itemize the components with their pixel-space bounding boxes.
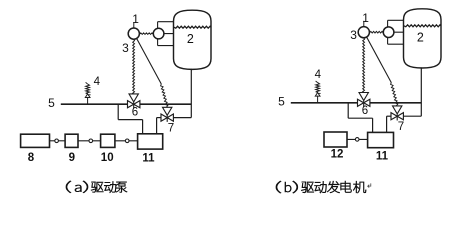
branch pipe from line 5 to unit 11 — [347, 103, 349, 118]
valve 7 actuator — [396, 116, 398, 120]
unit box 10 — [101, 134, 115, 147]
valve 7 actuator — [166, 118, 168, 122]
svg-text:6: 6 — [362, 105, 368, 117]
stub above circle 1 — [133, 22, 135, 28]
svg-text:8: 8 — [28, 152, 35, 164]
svg-text:1: 1 — [362, 11, 369, 25]
tank vessel 2 — [404, 9, 442, 68]
svg-text:1: 1 — [132, 12, 139, 26]
coupling 10-11 — [125, 139, 129, 143]
pipe from valve 6 to tank outlet riser — [140, 103, 191, 105]
svg-text:4: 4 — [94, 76, 101, 88]
valve 6 body — [128, 101, 134, 108]
unit box 12 — [324, 132, 347, 147]
pipe line 5 — [291, 102, 358, 104]
circle instrument 1 — [358, 27, 369, 38]
capillary between circle 1 and circle 2 — [368, 31, 385, 33]
sensing line circle 1 to valve 7 — [137, 39, 162, 84]
unit box 8 — [21, 134, 50, 147]
valve 7 body — [391, 113, 397, 120]
svg-text:11: 11 — [376, 151, 389, 163]
pipe valve 7 left drop to unit 11 — [387, 115, 391, 117]
unit box 9 — [65, 134, 78, 147]
relief device 4 — [87, 98, 89, 105]
sensing line circle 1 to valve 7 — [367, 37, 392, 82]
circle instrument 1 — [128, 28, 139, 39]
svg-text:5: 5 — [48, 96, 55, 110]
caption (b) drive generator — [276, 181, 281, 193]
svg-text:3: 3 — [122, 41, 129, 55]
tank outlet riser — [190, 69, 192, 118]
relief device 4 — [317, 96, 319, 103]
pipe riser to valve 7 right — [173, 117, 191, 119]
shaft 8-9 — [50, 140, 66, 142]
svg-text:2: 2 — [187, 32, 194, 46]
tank liquid level (wavy) — [404, 25, 441, 27]
tank outlet riser — [420, 67, 422, 116]
coupling 9-10 — [89, 139, 93, 143]
pipe from valve 6 to tank outlet riser — [370, 102, 421, 104]
heater loop pipes to tank — [157, 22, 159, 46]
caption (a) drive pump — [66, 181, 71, 193]
svg-text:2: 2 — [417, 31, 424, 45]
svg-text:6: 6 — [132, 106, 138, 118]
return mark after caption b — [368, 183, 371, 187]
coupling 12-11 — [355, 138, 359, 142]
diagram (a) drive pump — [21, 10, 211, 164]
svg-text:11: 11 — [142, 152, 155, 164]
shaft 9-10 — [78, 140, 101, 142]
diagram (b) drive generator — [278, 9, 441, 163]
tank vessel 2 — [174, 10, 212, 69]
valve 6 actuator — [363, 103, 365, 107]
valve 7 body — [161, 114, 167, 121]
svg-text:7: 7 — [398, 121, 404, 133]
heater loop pipes to tank — [387, 20, 389, 44]
svg-text:10: 10 — [101, 152, 114, 164]
branch pipe from line 5 to unit 11 — [117, 104, 119, 119]
tank liquid level (wavy) — [174, 26, 211, 28]
shaft 12-11 — [347, 138, 368, 140]
pipe valve 7 left drop to unit 11 — [157, 117, 161, 119]
capillary line circle 1 to valve 6 — [363, 38, 365, 92]
unit box 11 — [368, 132, 394, 147]
svg-text:7: 7 — [168, 123, 174, 135]
svg-text:3: 3 — [350, 28, 357, 42]
svg-text:5: 5 — [278, 94, 285, 108]
circle pump 2 — [383, 27, 394, 38]
shaft 10-11 — [115, 140, 138, 142]
valve 6 actuator — [133, 104, 135, 108]
svg-text:12: 12 — [331, 149, 344, 161]
pipe line 5 — [61, 103, 128, 105]
svg-text:4: 4 — [315, 69, 322, 81]
coupling 8-9 — [55, 139, 59, 143]
capillary between circle 1 and circle 2 — [138, 33, 155, 35]
valve 6 body — [358, 99, 364, 106]
pipe riser to valve 7 right — [403, 115, 421, 117]
stub above circle 1 — [363, 21, 365, 27]
circle pump 2 — [153, 28, 164, 39]
svg-text:9: 9 — [69, 152, 75, 164]
unit box 11 — [138, 134, 163, 149]
capillary line circle 1 to valve 6 — [133, 39, 135, 93]
